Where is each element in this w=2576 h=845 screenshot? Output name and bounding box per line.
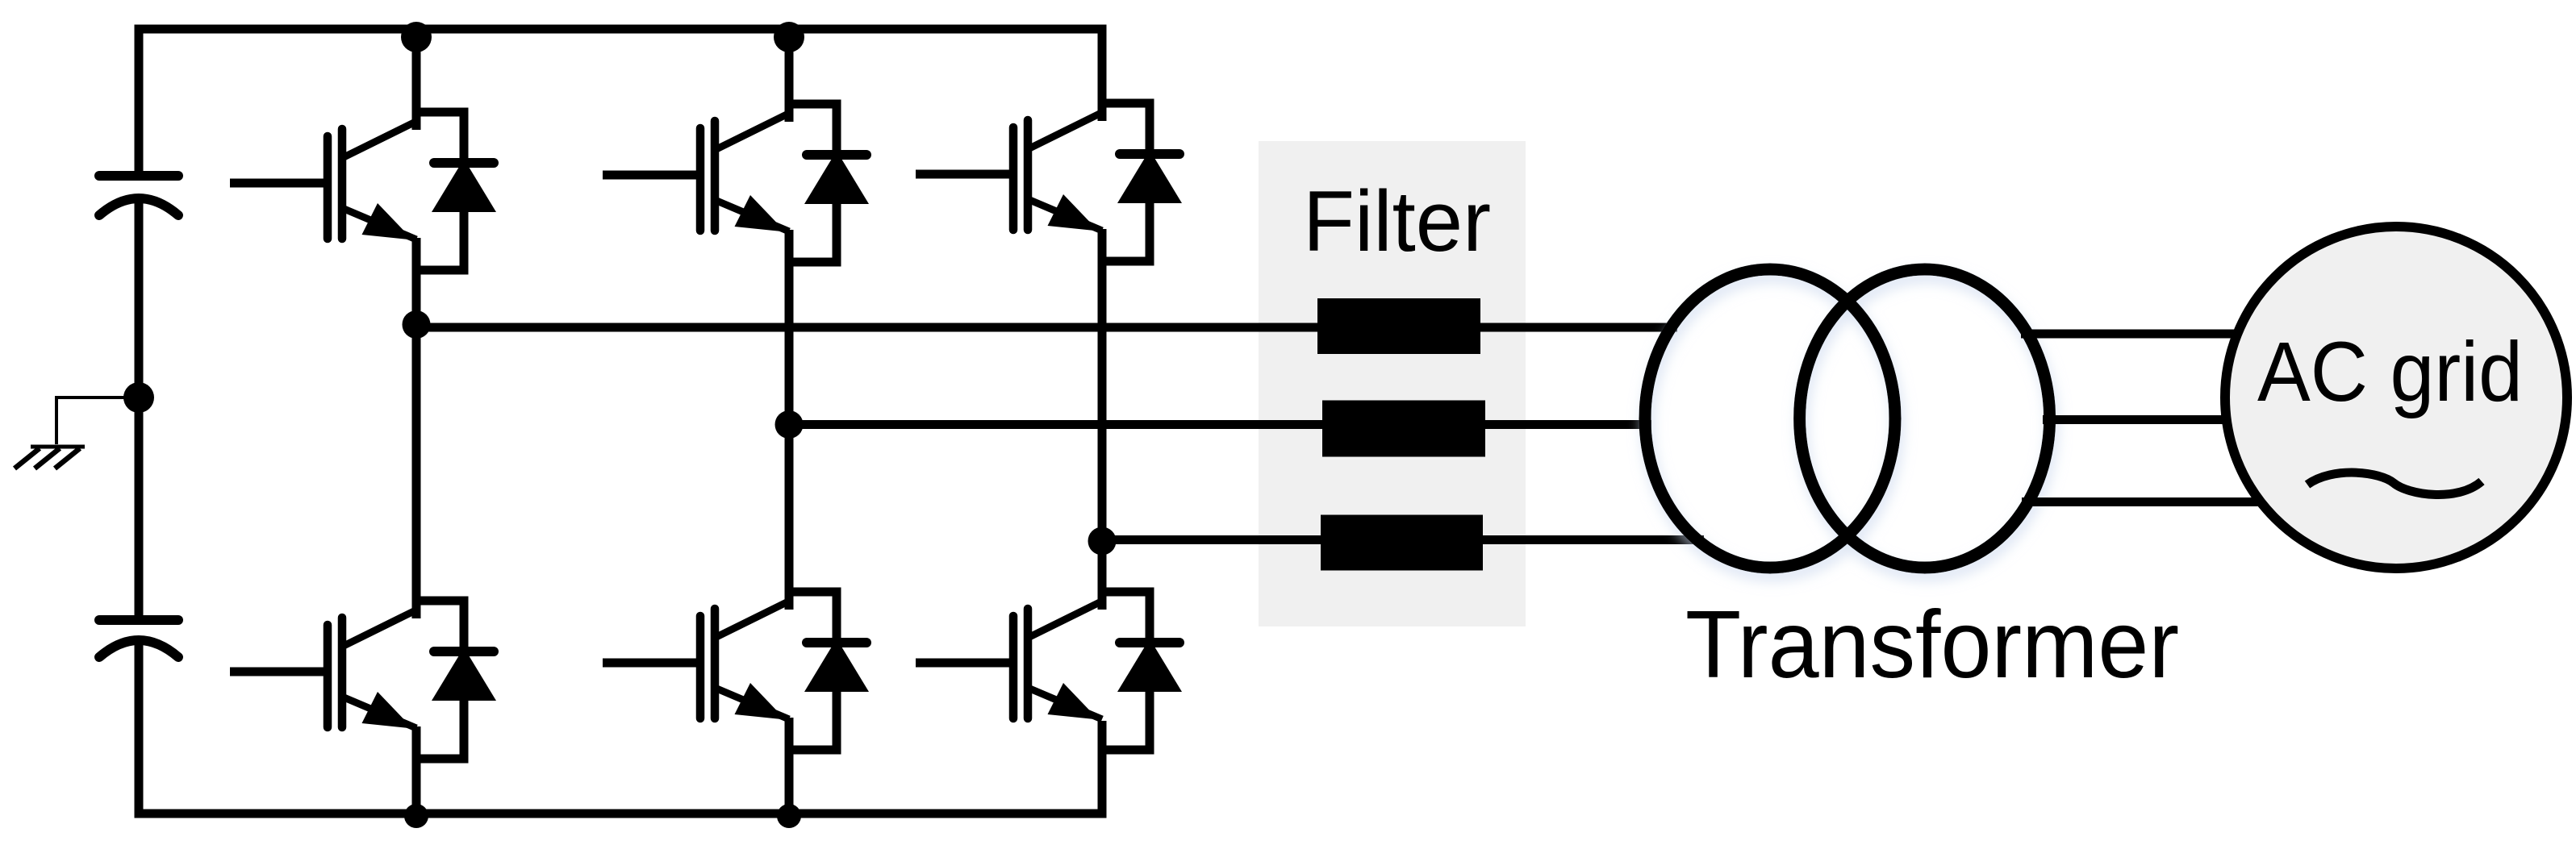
wire emitter Q1 (412, 238, 421, 327)
wire gate lead Q6 (916, 659, 1014, 668)
transistor Q5 (IGBT) (700, 601, 789, 720)
wire gate lead Q2 (603, 171, 701, 180)
filter block background (1259, 141, 1526, 626)
diode D1 (416, 112, 496, 270)
node DC midpoint (123, 382, 154, 413)
diode D2 (789, 104, 869, 262)
transistor Q6 (IGBT) (1013, 601, 1102, 720)
node phase A (403, 310, 431, 339)
transistor Q3 (IGBT) (1013, 113, 1102, 231)
wire phase B (789, 420, 1651, 429)
wire positive DC bus (139, 29, 1102, 171)
node phase B (775, 410, 804, 439)
wire gate lead Q4 (230, 668, 328, 676)
wire gate lead Q1 (230, 179, 328, 188)
wire gate lead Q5 (603, 659, 701, 668)
node phase C (1088, 527, 1117, 556)
label Filter (1303, 173, 1491, 269)
AC grid source G1 (2225, 227, 2567, 568)
wire collector Q6 (1098, 540, 1107, 610)
ground (15, 447, 85, 468)
wire emitter Q3 (1098, 229, 1107, 540)
wire negative DC bus (139, 645, 1102, 814)
wire grid line 2 (2043, 415, 2251, 424)
wire gate lead Q3 (916, 170, 1014, 179)
wire grid line 1 (2021, 330, 2259, 339)
wire emitter Q2 (785, 230, 794, 425)
wire to ground (56, 398, 139, 444)
node negative bus leg 1 (404, 804, 428, 828)
transistor Q2 (IGBT) (700, 114, 789, 232)
diode D4 (416, 601, 496, 759)
transformer T1 (1645, 269, 2050, 568)
transistor Q1 (IGBT) (328, 122, 416, 240)
node negative bus leg 2 (777, 804, 801, 828)
wire DC midpoint (135, 202, 144, 618)
diode D3 (1102, 103, 1182, 261)
wire collector Q4 (412, 327, 421, 618)
inductor L3 (1321, 515, 1483, 571)
node positive bus leg 2 (774, 22, 804, 52)
wire emitter Q4 (412, 726, 421, 814)
wire collector Q1 (412, 29, 421, 130)
svg-text:Transformer: Transformer (1685, 591, 2179, 698)
wire collector Q2 (785, 29, 794, 122)
label Transformer (1685, 591, 2179, 698)
wire emitter Q5 (785, 718, 794, 814)
wire phase C (1102, 535, 1704, 544)
capacitor C1 (99, 176, 178, 215)
capacitor C2 (99, 620, 178, 657)
diode D6 (1102, 592, 1182, 750)
wire phase A (416, 323, 1677, 332)
inductor L1 (1317, 298, 1480, 354)
node positive bus leg 1 (401, 22, 432, 52)
inductor L2 (1322, 401, 1485, 457)
label AC grid (2257, 325, 2523, 419)
transistor Q4 (IGBT) (328, 610, 416, 729)
diode D5 (789, 592, 869, 750)
wire collector Q5 (785, 425, 794, 610)
wire grid line 3 (2022, 497, 2283, 506)
svg-text:Filter: Filter (1303, 173, 1491, 269)
svg-text:AC grid: AC grid (2257, 325, 2523, 419)
